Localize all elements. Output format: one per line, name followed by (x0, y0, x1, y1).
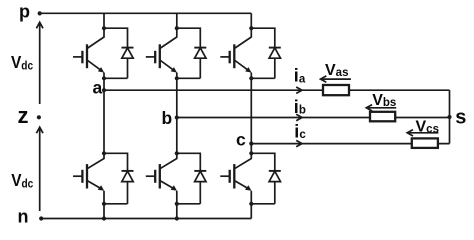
svg-text:Vas: Vas (325, 62, 348, 79)
svg-text:Vdc: Vdc (11, 53, 33, 72)
svg-text:b: b (162, 108, 173, 128)
svg-text:ib: ib (294, 97, 306, 117)
svg-text:s: s (455, 106, 466, 128)
svg-text:Vbs: Vbs (372, 92, 396, 109)
svg-text:ia: ia (294, 66, 306, 86)
svg-text:Vdc: Vdc (11, 171, 33, 190)
svg-text:a: a (93, 77, 103, 97)
svg-text:Vcs: Vcs (416, 119, 439, 136)
svg-text:c: c (236, 129, 246, 149)
svg-text:ic: ic (294, 121, 306, 141)
svg-text:p: p (19, 2, 30, 22)
svg-text:z: z (18, 103, 29, 128)
svg-text:n: n (18, 206, 29, 226)
